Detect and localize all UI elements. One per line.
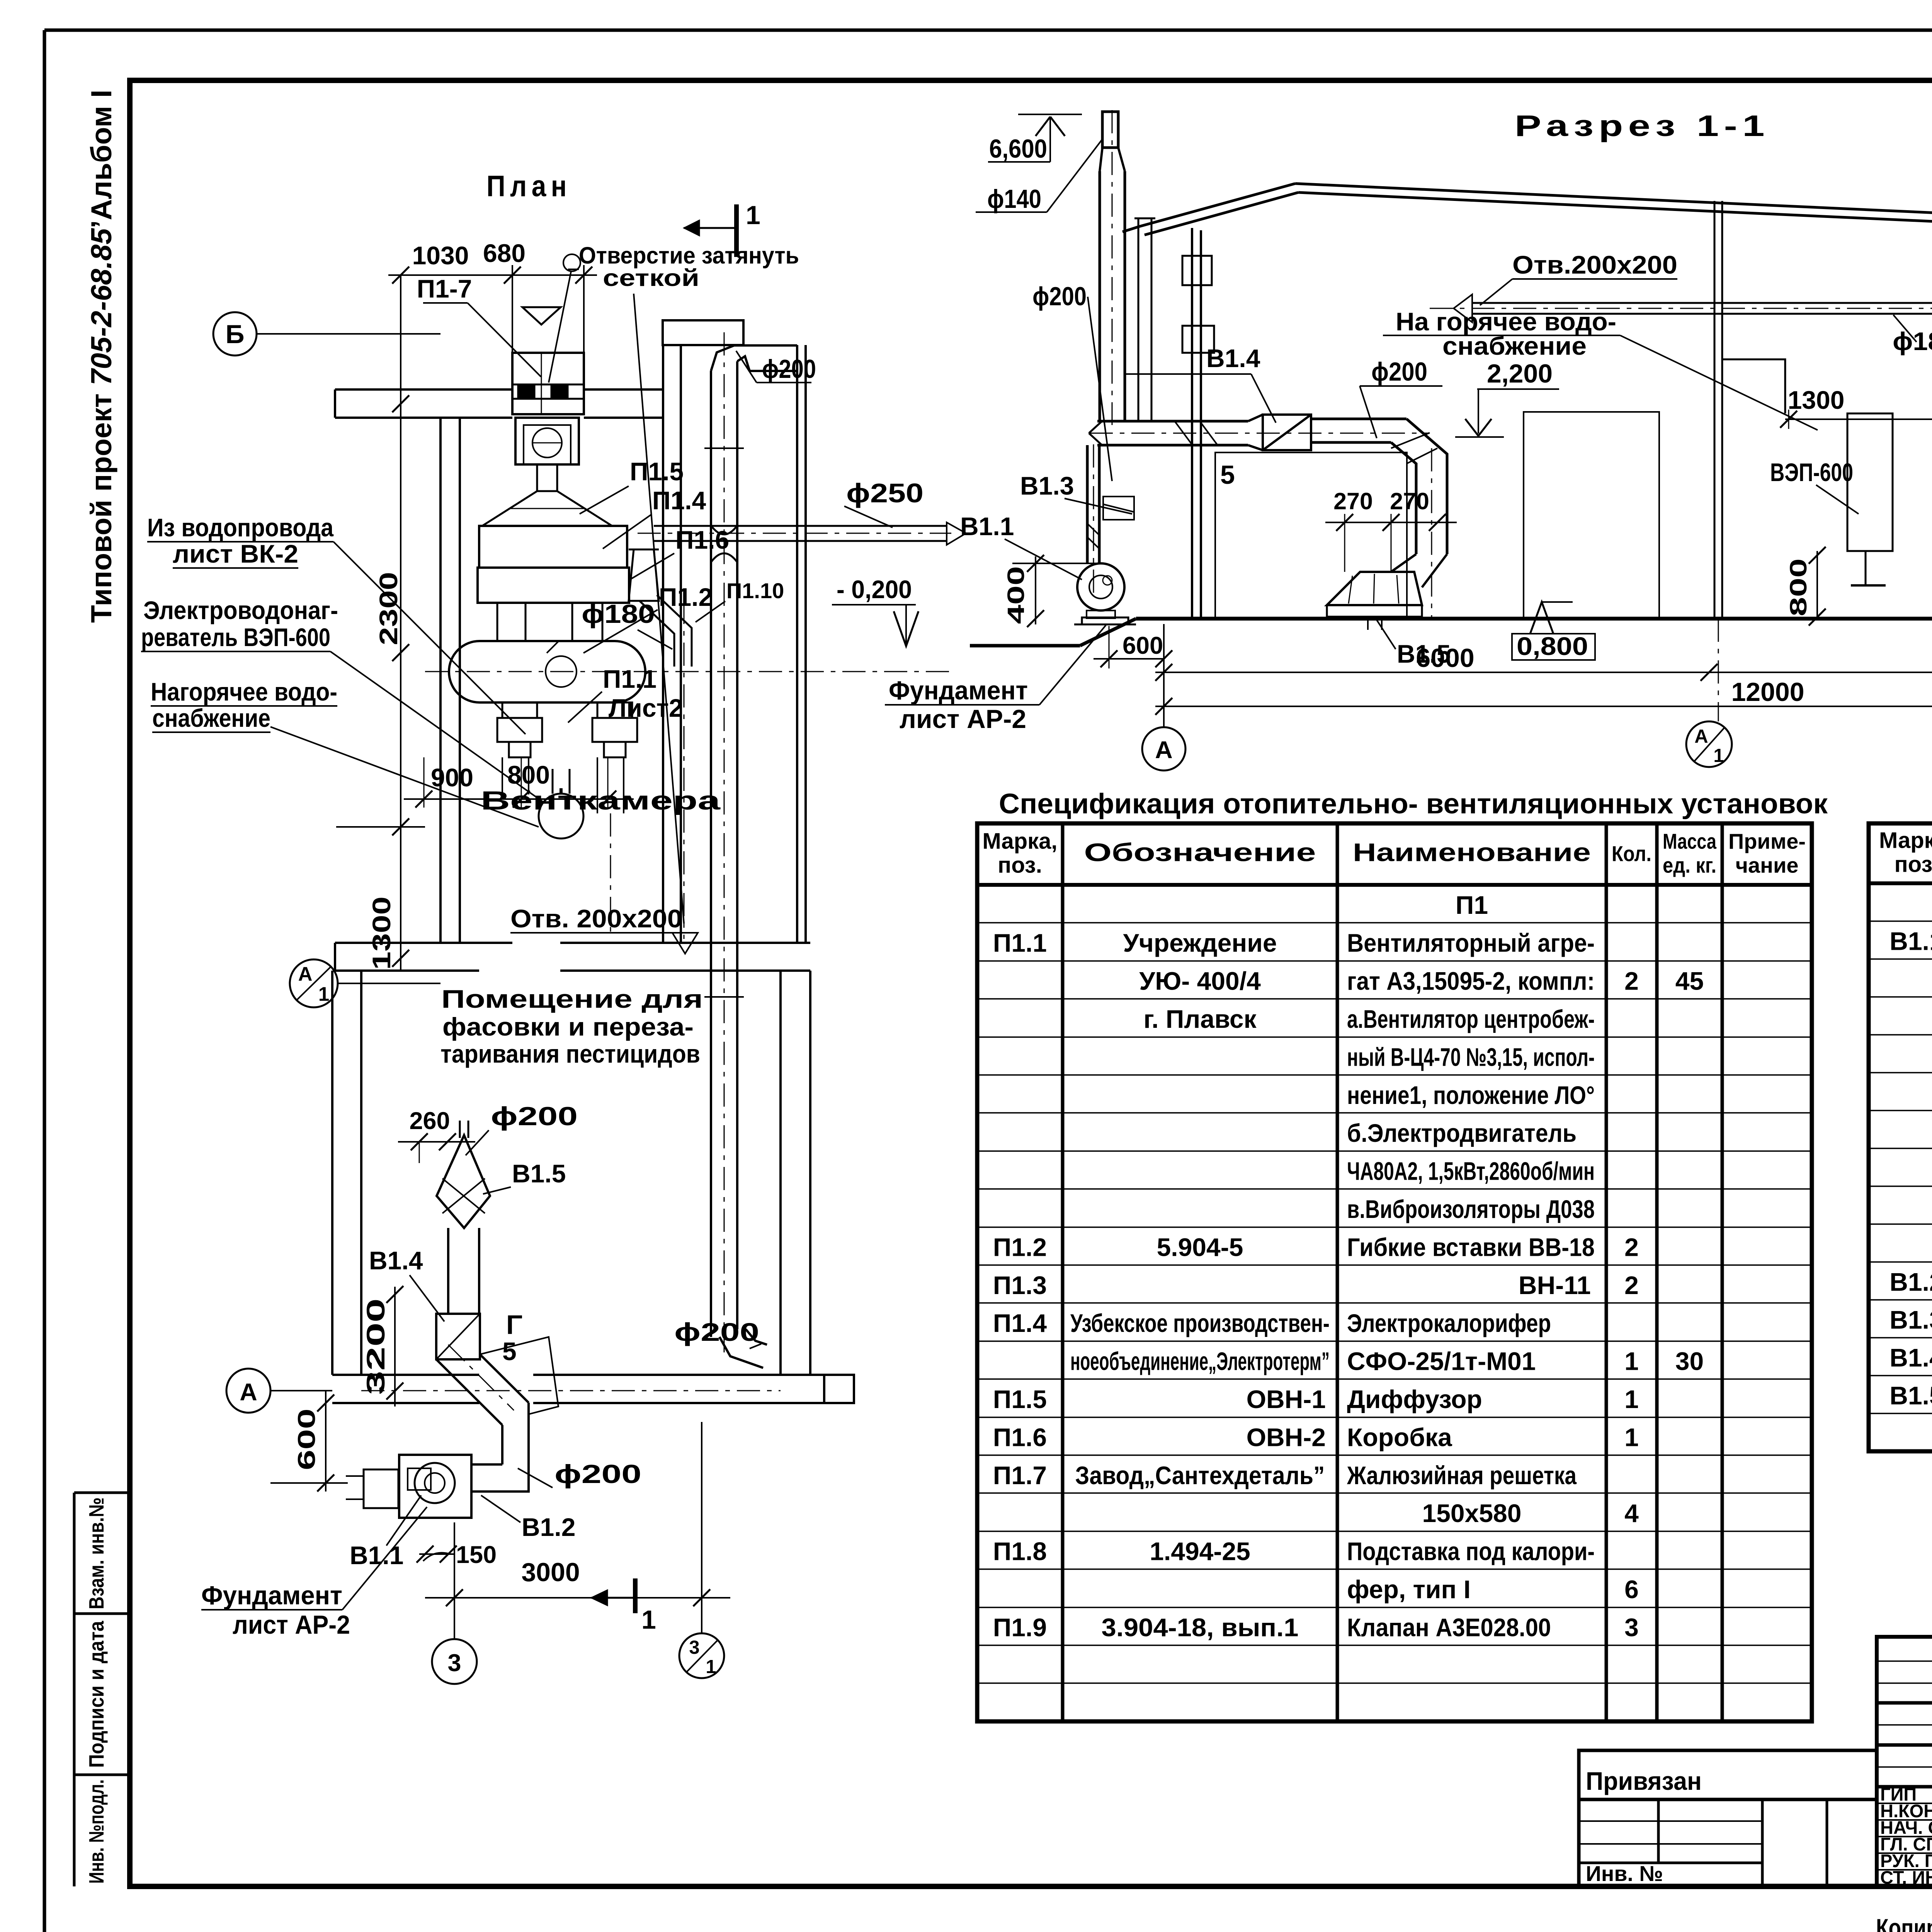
plan pipe Ф250 (horizontal) (638, 522, 966, 545)
plan section mark 1 (top) (684, 201, 760, 257)
svg-text:Подставка под калори-: Подставка под калори- (1347, 1537, 1595, 1566)
svg-text:Фундамент: Фундамент (889, 676, 1028, 705)
plan left notes: Из водопровода лист ВК-2 (147, 513, 526, 734)
svg-text:В1.2: В1.2 (522, 1513, 575, 1541)
svg-text:Спецификация отопительно- вент: Спецификация отопительно- вентиляционных… (999, 788, 1828, 820)
plan air heater П1.4 (479, 526, 627, 568)
svg-text:2: 2 (1624, 1271, 1639, 1299)
svg-text:лист АР-2: лист АР-2 (900, 704, 1026, 734)
svg-text:1: 1 (706, 1656, 716, 1677)
svg-text:2: 2 (1624, 967, 1639, 995)
svg-text:В1.3: В1.3 (1020, 471, 1074, 500)
plan axis circle 3 (432, 1639, 477, 1684)
left specification table (977, 823, 1812, 1721)
svg-text:3200: 3200 (361, 1298, 390, 1395)
svg-text:В1.4: В1.4 (1889, 1343, 1932, 1372)
section label Ф200 (duct) with leader (1360, 357, 1442, 438)
svg-text:снабжение: снабжение (152, 704, 270, 732)
section fan В1.1 (scroll) (1074, 563, 1136, 624)
section level mark 0,800 (1512, 602, 1595, 660)
plan lower room left wall (332, 971, 361, 1375)
svg-text:П1: П1 (1456, 891, 1488, 919)
svg-text:П1.4: П1.4 (993, 1309, 1047, 1337)
svg-text:П1.6: П1.6 (993, 1423, 1047, 1451)
plan axis circle А (226, 1369, 781, 1413)
svg-text:260: 260 (409, 1107, 450, 1134)
plan wall on axis А/1 (335, 943, 810, 971)
section opening label Отв.200х200 (1480, 250, 1677, 305)
svg-text:Жалюзийная решетка: Жалюзийная решетка (1347, 1461, 1577, 1490)
title block: signature table (1877, 1637, 1932, 1886)
svg-text:лист АР-2: лист АР-2 (233, 1610, 350, 1639)
svg-text:В1.3: В1.3 (1889, 1305, 1932, 1334)
svg-text:П1.3: П1.3 (993, 1271, 1047, 1299)
svg-text:6: 6 (1624, 1575, 1639, 1604)
svg-text:П1.5: П1.5 (630, 457, 684, 486)
svg-text:Электроводонаг-: Электроводонаг- (143, 596, 338, 624)
svg-text:ед. кг.: ед. кг. (1663, 853, 1716, 878)
svg-text:Инв. №: Инв. № (1586, 1861, 1663, 1886)
svg-text:П1.4: П1.4 (652, 486, 706, 515)
section labels В1.1 В1.3 with leaders (960, 471, 1132, 580)
section axis circle А/1 (1686, 721, 1732, 767)
plan duct Ф180 (diagonal drop) (629, 549, 692, 939)
svg-text:чание: чание (1735, 853, 1798, 878)
section water heater ВЭП-600 (1770, 413, 1893, 585)
svg-text:150: 150 (456, 1541, 497, 1568)
plan labels П1.5 П1.4 П1.6 П1.2 П1.10 with leaders (547, 457, 784, 653)
svg-text:150х580: 150х580 (1422, 1499, 1522, 1527)
svg-text:ϕ200: ϕ200 (1371, 357, 1427, 386)
plan dimension 150 (417, 1541, 497, 1568)
svg-text:2300: 2300 (374, 572, 403, 645)
plan left notes: Электроводонагреватель ВЭП-600 (141, 596, 543, 802)
plan dimension 3200 (vertical) (361, 1286, 403, 1406)
svg-text:реватель ВЭП-600: реватель ВЭП-600 (141, 623, 330, 651)
plan label В1.2 with leader (481, 1495, 575, 1541)
svg-text:Помещение для: Помещение для (441, 985, 703, 1013)
svg-text:600: 600 (293, 1408, 320, 1470)
svg-text:- 0,200: - 0,200 (837, 575, 912, 604)
svg-text:Типовой проект 705-2-68.85’А: Типовой проект 705-2-68.85’Альбом I (85, 90, 117, 623)
section dimension 800 (heater) (1785, 547, 1826, 626)
svg-text:Кол.: Кол. (1612, 842, 1651, 866)
svg-text:Масса: Масса (1663, 829, 1717, 854)
svg-text:В1.5: В1.5 (512, 1159, 566, 1188)
section valve В1.4 (hatched) (1248, 415, 1311, 450)
svg-text:1: 1 (746, 201, 760, 230)
section ground line left (-0.200) (970, 619, 1136, 646)
svg-text:В1.4: В1.4 (369, 1246, 423, 1275)
svg-text:400: 400 (1003, 566, 1029, 624)
svg-text:Привязан: Привязан (1586, 1767, 1702, 1795)
plan section mark 1 (bottom) (591, 1578, 656, 1634)
plan wall on axis А (332, 1375, 824, 1403)
svg-text:ϕ180: ϕ180 (1893, 327, 1932, 355)
svg-text:В1.1: В1.1 (1889, 927, 1932, 955)
section note На горячее водоснабжение (1383, 307, 1818, 430)
section discharge stack (second riser) (1134, 218, 1155, 421)
svg-text:П1.2: П1.2 (993, 1233, 1047, 1261)
svg-text:900: 900 (431, 763, 473, 792)
section elevation mark -0,200 (832, 575, 918, 646)
title block signatures text (1880, 1784, 1932, 1888)
svg-text:800: 800 (1785, 558, 1811, 616)
svg-text:3: 3 (689, 1637, 699, 1658)
svg-text:270: 270 (1333, 488, 1373, 514)
plan left wall of vent chamber (440, 418, 460, 943)
svg-text:Фундамент: Фундамент (201, 1581, 342, 1610)
svg-text:5.904-5: 5.904-5 (1157, 1233, 1243, 1261)
section floor line 0.000 (1136, 617, 1932, 621)
section axis circle А (1142, 727, 1185, 770)
svg-text:СТ. ИНЖ: СТ. ИНЖ (1880, 1867, 1932, 1888)
svg-text:А: А (240, 1379, 257, 1406)
section label Ф140 (976, 139, 1102, 214)
section horizontal duct to В1.4 (1089, 421, 1430, 445)
svg-text:фер, тип I: фер, тип I (1347, 1575, 1471, 1604)
svg-text:0,800: 0,800 (1517, 632, 1588, 660)
svg-text:поз.: поз. (998, 853, 1042, 878)
svg-text:Клапан А3Е028.00: Клапан А3Е028.00 (1347, 1613, 1551, 1641)
svg-text:1300: 1300 (367, 896, 396, 970)
plan diffuser П1.5 (trapezoid) (482, 464, 612, 526)
plan roof shaft with grille П1-7 (512, 353, 584, 414)
svg-text:Марка,: Марка, (1879, 828, 1932, 853)
svg-text:Нагорячее водо-: Нагорячее водо- (151, 677, 337, 706)
svg-text:680: 680 (483, 239, 526, 267)
svg-text:ϕ140: ϕ140 (987, 184, 1041, 214)
svg-text:Диффузор: Диффузор (1347, 1385, 1482, 1413)
svg-text:П1.7: П1.7 (993, 1461, 1047, 1490)
svg-text:А: А (298, 963, 313, 985)
svg-text:г. Плавск: г. Плавск (1143, 1005, 1257, 1033)
svg-text:ЧА80А2, 1,5кВт,2860об/мин: ЧА80А2, 1,5кВт,2860об/мин (1347, 1157, 1595, 1185)
plan dimension 900 / 800 (404, 757, 634, 808)
svg-text:УЮ- 400/4: УЮ- 400/4 (1139, 967, 1261, 995)
plan label В1.1 with leader (350, 1495, 421, 1570)
svg-text:1: 1 (1624, 1423, 1639, 1451)
plan top dimension 1030 / 680 (388, 239, 597, 723)
plan dimension 600 (vertical) (270, 1391, 348, 1492)
svg-text:600: 600 (1122, 632, 1163, 659)
svg-text:1: 1 (1624, 1385, 1639, 1413)
plan duct bottom elbow (Г) (506, 1310, 854, 1403)
plan duct elbow to fan В1.1 (471, 1403, 529, 1492)
plan pipes below collector (502, 757, 624, 937)
svg-text:Вентиляторный агре-: Вентиляторный агре- (1347, 929, 1595, 957)
plan wall on axis Б (335, 320, 743, 943)
svg-text:30: 30 (1675, 1347, 1704, 1376)
section pipe to heater (1722, 359, 1785, 413)
section label Ф200 (chimney) (1032, 282, 1112, 481)
svg-text:45: 45 (1675, 967, 1704, 995)
svg-text:270: 270 (1390, 488, 1429, 514)
svg-text:Коробка: Коробка (1347, 1423, 1452, 1451)
svg-text:Наименование: Наименование (1353, 838, 1591, 867)
svg-text:Приме-: Приме- (1728, 829, 1806, 854)
svg-text:нение1, положение ЛО°: нение1, положение ЛО° (1347, 1081, 1595, 1109)
svg-text:Инв. №подл.: Инв. №подл. (85, 1779, 108, 1884)
plan label Ф200 at filter (466, 1102, 578, 1155)
plan label В1.5 with leader (483, 1159, 566, 1194)
plan opening label Отв. 200х200 with triangle (510, 904, 698, 954)
axis circle А/1 (plan) (290, 959, 440, 1007)
svg-text:б.Электродвигатель: б.Электродвигатель (1347, 1119, 1577, 1147)
svg-text:Обозначение: Обозначение (1084, 838, 1316, 867)
svg-text:Из водопровода: Из водопровода (147, 513, 334, 542)
plan labels П1.1 / Лист2 (568, 665, 683, 723)
svg-text:П1.8: П1.8 (993, 1537, 1047, 1566)
svg-text:Разрез 1-1: Разрез 1-1 (1515, 109, 1770, 143)
plan diagonal duct with zone box 5 (436, 1337, 558, 1425)
svg-text:Подписи и дата: Подписи и дата (85, 1621, 108, 1768)
plan bolted branch connections (497, 702, 637, 757)
section elevation 6,600 (988, 114, 1082, 163)
svg-text:Марка,: Марка, (982, 829, 1057, 854)
svg-text:таривания пестицидов: таривания пестицидов (440, 1039, 700, 1068)
svg-text:фасовки и переза-: фасовки и переза- (442, 1012, 694, 1041)
svg-text:ноеобъединение„Электротерм”: ноеобъединение„Электротерм” (1070, 1347, 1330, 1376)
plan room label Помещение для фасовки и перезатаривания пестицидов (440, 985, 703, 1068)
svg-text:А: А (1155, 736, 1173, 764)
plan right wall of vent chamber (797, 345, 806, 943)
svg-text:ϕ200: ϕ200 (491, 1102, 578, 1131)
svg-text:сеткой: сеткой (603, 265, 699, 291)
section note Фундамент лист АР-2 (885, 625, 1106, 734)
svg-text:В1.4: В1.4 (1206, 344, 1260, 372)
svg-text:П1.1: П1.1 (603, 665, 656, 693)
section chimney (В1 exhaust stack) (1087, 110, 1125, 597)
svg-text:1030: 1030 (412, 241, 469, 270)
svg-text:Гибкие вставки ВВ-18: Гибкие вставки ВВ-18 (1347, 1233, 1595, 1261)
plan axis circle 3/1 (679, 1633, 724, 1678)
svg-text:6000: 6000 (1416, 643, 1474, 673)
svg-text:4: 4 (1624, 1499, 1639, 1527)
plan heater symbol (водонагреватель) (539, 769, 583, 838)
svg-text:1: 1 (318, 983, 329, 1005)
section duct Ф200 after valve with elbow down (1311, 419, 1447, 618)
svg-text:Отв. 200х200: Отв. 200х200 (510, 904, 682, 933)
svg-text:Завод„Сантехдеталь”: Завод„Сантехдеталь” (1075, 1461, 1325, 1490)
svg-text:3: 3 (1624, 1613, 1639, 1641)
svg-text:П1.6: П1.6 (675, 526, 729, 554)
plan label П1-7 with leader (417, 274, 541, 377)
svg-text:ный В-Ц4-70 №3,15, испол-: ный В-Ц4-70 №3,15, испол- (1347, 1043, 1595, 1071)
svg-text:1.494-25: 1.494-25 (1150, 1537, 1250, 1566)
section dimension 600 (1094, 626, 1172, 668)
svg-text:2: 2 (1624, 1233, 1639, 1261)
section dimension 400 (fan) (1003, 555, 1105, 627)
svg-text:ОВН-1: ОВН-1 (1247, 1385, 1326, 1413)
svg-text:ОВН-2: ОВН-2 (1247, 1423, 1326, 1451)
plan label Ф180 with leader (582, 599, 672, 649)
plan label Отверстие затянуть сеткой (549, 242, 799, 923)
svg-text:ϕ200: ϕ200 (554, 1459, 641, 1489)
svg-text:А: А (1694, 726, 1708, 747)
section label В1.5 with leader (1376, 618, 1451, 668)
svg-text:в.Виброизоляторы Д038: в.Виброизоляторы Д038 (1347, 1195, 1595, 1223)
section equipment outline with mark 5 (1215, 452, 1407, 619)
section pipe Ф180 under roof (1430, 294, 1932, 322)
svg-text:П1.9: П1.9 (993, 1613, 1047, 1641)
right specification table (1869, 823, 1932, 1451)
svg-text:ϕ200: ϕ200 (674, 1318, 759, 1346)
binding box Привязан (1579, 1750, 1877, 1799)
svg-text:ВН-11: ВН-11 (1519, 1271, 1591, 1299)
svg-text:П1.5: П1.5 (993, 1385, 1047, 1413)
svg-text:1: 1 (1713, 745, 1724, 766)
svg-text:лист ВК-2: лист ВК-2 (173, 539, 298, 568)
svg-text:Взам. инв.№: Взам. инв.№ (85, 1497, 108, 1609)
svg-text:а.Вентилятор центробеж-: а.Вентилятор центробеж- (1347, 1005, 1595, 1033)
plan label Ф200 at duct bend (518, 1459, 641, 1489)
svg-text:3: 3 (447, 1650, 461, 1677)
plan fan В1.1 unit (346, 1455, 471, 1518)
svg-text:П1-7: П1-7 (417, 274, 472, 303)
svg-text:Электрокалорифер: Электрокалорифер (1347, 1309, 1551, 1337)
svg-text:П1.1: П1.1 (993, 929, 1047, 957)
plan label Ф250 with leader (844, 478, 923, 527)
svg-text:2,200: 2,200 (1487, 359, 1553, 388)
plan filter В1.5 (cone) (437, 1121, 490, 1228)
svg-text:В1.2: В1.2 (1889, 1267, 1932, 1296)
svg-text:5: 5 (1220, 460, 1235, 490)
section label Ф180 with leader (1893, 315, 1932, 355)
plan lower room right wall (781, 971, 810, 1375)
plan vent duct Ф200 (right vertical run) (704, 332, 797, 1352)
lower-left title grid with Инв. № (1579, 1799, 1877, 1886)
section dimension 270 270 (1325, 488, 1457, 572)
plan dimension 3000 (425, 1422, 730, 1638)
section filter В1.5 (hood) (1327, 554, 1447, 630)
section storage block (1524, 412, 1659, 619)
svg-text:ϕ200: ϕ200 (762, 354, 816, 384)
svg-text:Лист2: Лист2 (609, 694, 683, 722)
svg-text:Копировал Лукьянова: Копировал Лукьянова (1876, 1913, 1932, 1932)
plan valve В1.4 (hatched box) with label (369, 1246, 480, 1359)
plan unit legs (497, 603, 602, 641)
plan label Ф200 (top right) with leader (736, 351, 816, 384)
svg-text:План: План (486, 170, 571, 203)
svg-text:1: 1 (1624, 1347, 1639, 1376)
svg-text:ϕ180: ϕ180 (582, 599, 655, 629)
plan exhaust shaft triangle marker (522, 307, 561, 325)
svg-text:ϕ200: ϕ200 (1032, 282, 1087, 311)
section flex В1.3 on riser (1103, 497, 1134, 520)
svg-text:В1.5: В1.5 (1889, 1381, 1932, 1410)
plan left notes: Нагорячее водоснабжение (151, 677, 539, 827)
svg-text:Отв.200х200: Отв.200х200 (1512, 250, 1677, 279)
svg-text:3.904-18, вып.1: 3.904-18, вып.1 (1102, 1613, 1299, 1641)
svg-text:5: 5 (502, 1337, 517, 1366)
svg-text:ϕ250: ϕ250 (846, 478, 923, 508)
svg-text:Узбекское производствен-: Узбекское производствен- (1070, 1309, 1330, 1337)
left margin stamp column (Взам.инв.№ / Подпись и дата / Инв.№ подл.) (74, 1493, 130, 1886)
svg-text:3000: 3000 (521, 1558, 580, 1587)
plan collector П1.2 (oval) (425, 641, 951, 702)
svg-text:П1.10: П1.10 (726, 578, 784, 603)
plan supply unit stack: box П1.6 with damper (515, 418, 579, 464)
svg-text:П1.2: П1.2 (659, 583, 713, 611)
section interior line А/1 (1714, 201, 1722, 721)
section dimension 12000 (1155, 624, 1932, 727)
svg-text:поз.: поз. (1895, 852, 1932, 877)
plan box П1.6 lower (478, 568, 629, 603)
section building roof (1122, 184, 1932, 237)
section dimension 1300 (1780, 386, 1932, 429)
svg-text:12000: 12000 (1731, 677, 1804, 707)
plan dimension 1300 (vertical) (336, 723, 425, 970)
svg-text:Венткамера: Венткамера (481, 786, 721, 815)
plan duct down from filter (448, 1228, 479, 1314)
section wall on axis А (1182, 228, 1214, 619)
svg-text:Б: Б (226, 320, 245, 349)
section label В1.4 with leader (1124, 344, 1276, 423)
svg-text:гат А3,15095-2, компл:: гат А3,15095-2, компл: (1347, 967, 1595, 995)
svg-text:ВЭП-600: ВЭП-600 (1770, 458, 1853, 486)
svg-text:В1.1: В1.1 (960, 512, 1014, 541)
svg-text:1300: 1300 (1788, 386, 1845, 414)
svg-text:6,600: 6,600 (989, 134, 1047, 163)
plan note Фундамент лист АР-2 (bottom) (201, 1507, 427, 1639)
section level mark 2,200 (1455, 359, 1559, 437)
svg-text:1: 1 (641, 1605, 656, 1634)
svg-text:Γ: Γ (506, 1310, 522, 1340)
svg-text:Учреждение: Учреждение (1123, 929, 1277, 957)
axis circle Б (plan) (213, 312, 440, 661)
plan dimension 260 (398, 1107, 475, 1163)
svg-text:СФО-25/1т-М01: СФО-25/1т-М01 (1347, 1347, 1536, 1376)
section dimensions 6000 6000 (1155, 643, 1932, 681)
